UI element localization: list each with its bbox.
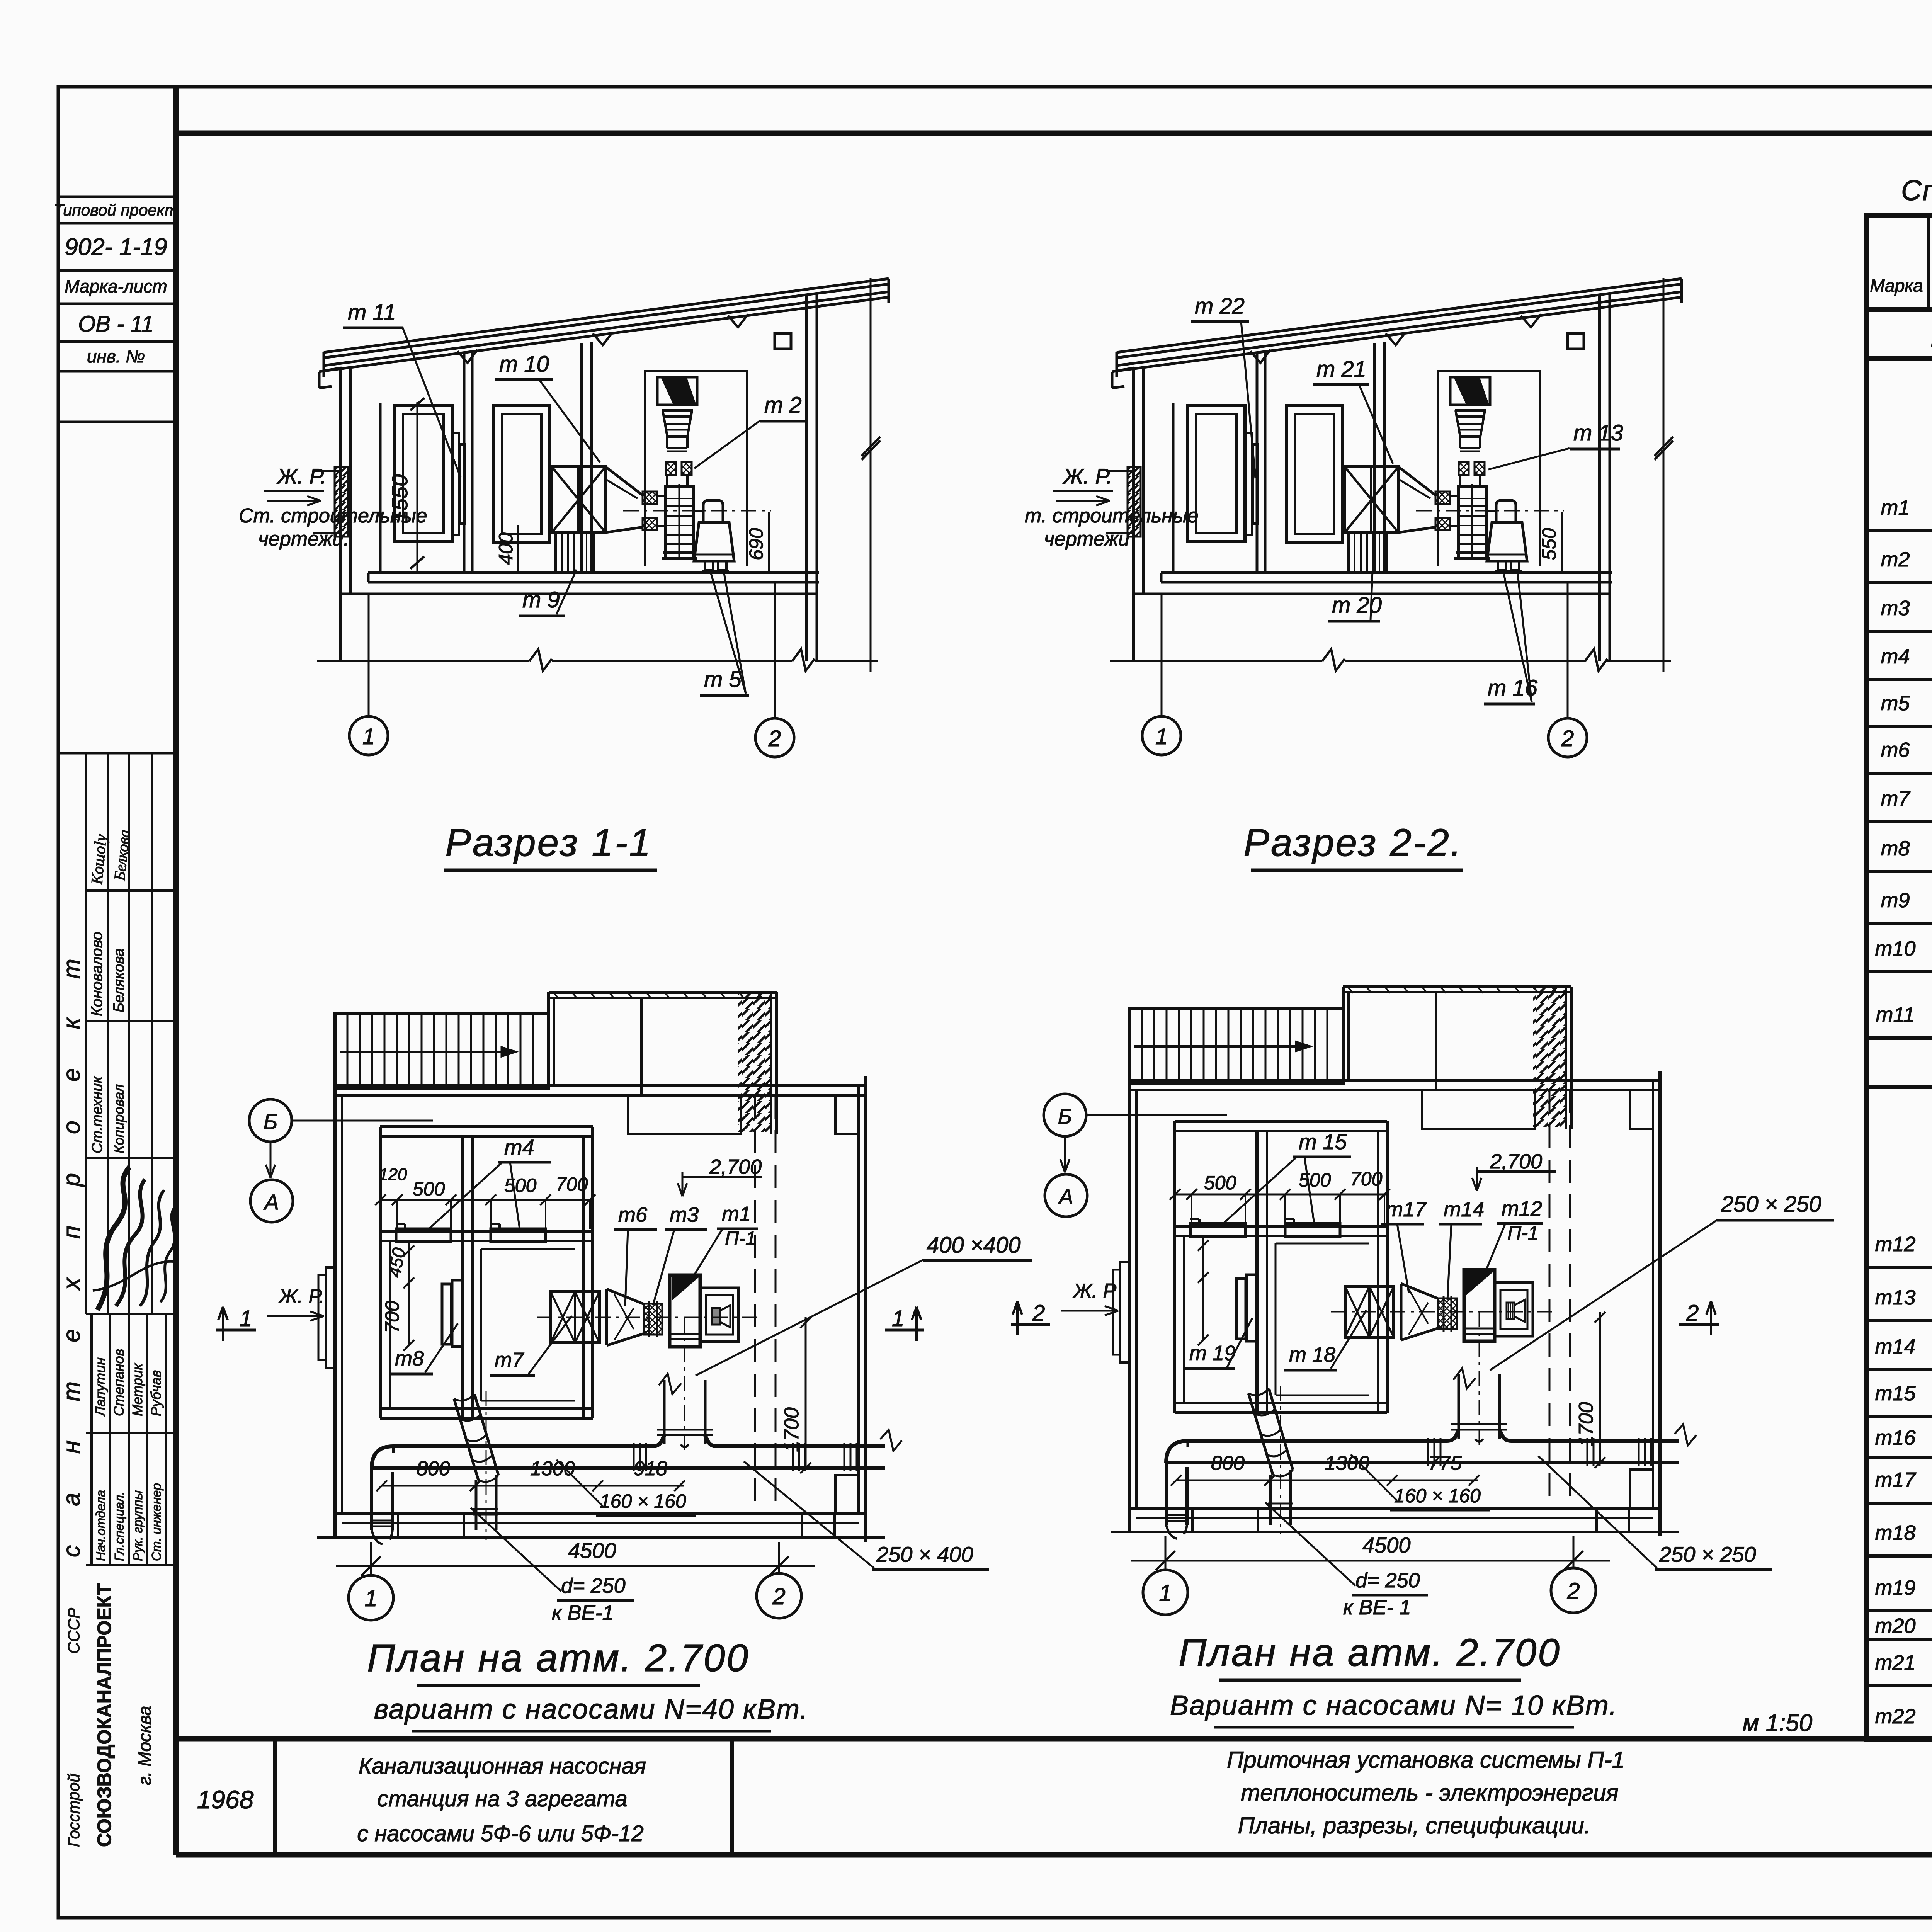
svg-text:m 11: m 11 xyxy=(348,300,396,325)
svg-text:690: 690 xyxy=(745,528,767,560)
table row m19 xyxy=(1866,1561,1932,1611)
title block xyxy=(176,1739,1932,1855)
table row m14 xyxy=(1866,1323,1932,1370)
svg-text:m 5: m 5 xyxy=(704,667,742,692)
svg-text:m5: m5 xyxy=(1881,692,1910,715)
svg-text:800: 800 xyxy=(1211,1452,1245,1475)
section view Razrez 2-2 xyxy=(1106,278,1682,757)
table row m12 xyxy=(1866,1089,1932,1267)
table row m18 xyxy=(1866,1505,1932,1556)
svg-text:инв. №: инв. № xyxy=(87,346,145,366)
svg-text:m22: m22 xyxy=(1875,1705,1915,1728)
svg-text:250 × 250: 250 × 250 xyxy=(1659,1542,1756,1566)
svg-text:Приточная установка системы: Приточная установка системы П-1 xyxy=(1227,1747,1625,1773)
svg-text:чертежи.: чертежи. xyxy=(258,528,349,550)
svg-text:m 20: m 20 xyxy=(1332,593,1382,618)
svg-text:Ж. Р.: Ж. Р. xyxy=(278,1285,325,1308)
dim 1550 xyxy=(417,402,418,571)
svg-text:m18: m18 xyxy=(1875,1521,1915,1544)
svg-text:П-1: П-1 xyxy=(1507,1222,1539,1244)
table row m13 xyxy=(1866,1272,1932,1321)
svg-text:m16: m16 xyxy=(1875,1426,1916,1449)
svg-text:Метрик: Метрик xyxy=(129,1363,145,1416)
svg-text:700: 700 xyxy=(1350,1168,1383,1190)
svg-text:План на атм. 2.700: План на атм. 2.700 xyxy=(1179,1631,1561,1674)
svg-text:к ВЕ- 1: к ВЕ- 1 xyxy=(1343,1596,1411,1619)
table row m4 xyxy=(1866,634,1932,680)
table row m17 xyxy=(1866,1459,1932,1503)
svg-text:120: 120 xyxy=(379,1165,407,1184)
plan 2 labels xyxy=(1011,1129,1834,1727)
svg-text:План на атм. 2.700: План на атм. 2.700 xyxy=(367,1636,750,1680)
svg-text:Копировал: Копировал xyxy=(111,1084,127,1153)
svg-text:Рубчав: Рубчав xyxy=(148,1370,164,1416)
svg-text:2,700: 2,700 xyxy=(709,1155,762,1179)
svg-text:m 19: m 19 xyxy=(1189,1342,1236,1365)
table row m1 xyxy=(1866,361,1932,531)
section 1 labels xyxy=(239,300,808,870)
svg-text:Белякова: Белякова xyxy=(111,948,127,1012)
svg-text:m6: m6 xyxy=(1881,738,1910,762)
svg-text:500: 500 xyxy=(413,1178,445,1200)
svg-text:m4: m4 xyxy=(504,1135,534,1159)
table row m2 xyxy=(1866,535,1932,583)
spec table header texts xyxy=(1870,225,1932,306)
svg-text:m8: m8 xyxy=(395,1347,424,1370)
svg-text:m 13: m 13 xyxy=(1573,420,1623,446)
svg-text:Марка-лист: Марка-лист xyxy=(65,276,167,296)
dim 690 xyxy=(768,512,770,571)
svg-text:m12: m12 xyxy=(1875,1233,1915,1256)
section mark left 2 xyxy=(1011,1323,1050,1326)
svg-text:Гл.специал.: Гл.специал. xyxy=(112,1492,126,1561)
svg-text:г. Москва: г. Москва xyxy=(134,1706,155,1785)
svg-text:1300: 1300 xyxy=(530,1458,575,1480)
svg-text:m 22: m 22 xyxy=(1195,294,1245,319)
svg-text:m13: m13 xyxy=(1875,1286,1915,1309)
svg-text:Ж. Р.: Ж. Р. xyxy=(1062,464,1112,488)
svg-text:т. строительные: т. строительные xyxy=(1025,505,1199,527)
svg-text:m14: m14 xyxy=(1875,1335,1915,1358)
svg-text:m14: m14 xyxy=(1444,1198,1484,1221)
svg-text:1700: 1700 xyxy=(1575,1402,1597,1447)
svg-text:m4: m4 xyxy=(1881,645,1910,668)
svg-text:Типовой проект: Типовой проект xyxy=(54,201,178,219)
svg-text:m11: m11 xyxy=(1876,1003,1915,1026)
svg-text:Разрез 2-2.: Разрез 2-2. xyxy=(1243,821,1463,864)
section mark left xyxy=(216,1329,256,1332)
plan 1 labels xyxy=(216,1135,1032,1731)
section mark right xyxy=(885,1329,924,1332)
svg-text:m 2: m 2 xyxy=(764,393,802,418)
svg-text:1: 1 xyxy=(240,1306,252,1331)
svg-text:СОЮЗВОДОКАНАЛПРОЕКТ: СОЮЗВОДОКАНАЛПРОЕКТ xyxy=(94,1583,115,1847)
svg-text:m19: m19 xyxy=(1875,1576,1915,1599)
svg-text:1: 1 xyxy=(892,1306,904,1331)
svg-text:500: 500 xyxy=(1204,1172,1236,1194)
svg-text:m7: m7 xyxy=(495,1349,524,1372)
svg-text:чертежи: чертежи xyxy=(1044,528,1129,550)
section view Razrez 1-1 xyxy=(313,278,889,757)
svg-text:Разрез 1-1: Разрез 1-1 xyxy=(445,821,652,864)
table row m9 xyxy=(1866,886,1932,923)
svg-text:775: 775 xyxy=(1428,1452,1462,1475)
svg-text:m17: m17 xyxy=(1386,1198,1427,1221)
svg-text:m 9: m 9 xyxy=(522,587,560,612)
svg-text:станция на 3 агрегата: станция на 3 агрегата xyxy=(377,1786,628,1811)
svg-text:m15: m15 xyxy=(1875,1382,1916,1405)
svg-text:m9: m9 xyxy=(1881,889,1910,912)
svg-text:m12: m12 xyxy=(1502,1197,1542,1220)
svg-text:m20: m20 xyxy=(1875,1614,1915,1638)
svg-text:m2: m2 xyxy=(1881,548,1910,571)
section 2 labels xyxy=(1025,294,1623,870)
svg-text:800: 800 xyxy=(417,1458,450,1480)
svg-text:m3: m3 xyxy=(670,1203,699,1226)
dim 550 xyxy=(1561,512,1563,571)
plan view variant 10kW xyxy=(1044,986,1696,1615)
svg-text:4500: 4500 xyxy=(568,1538,616,1563)
svg-text:2,700: 2,700 xyxy=(1490,1150,1542,1173)
svg-text:2: 2 xyxy=(1686,1301,1699,1326)
table row m5 xyxy=(1866,681,1932,726)
svg-text:250 × 250: 250 × 250 xyxy=(1721,1192,1821,1217)
svg-text:902- 1-19: 902- 1-19 xyxy=(65,234,167,260)
svg-text:2: 2 xyxy=(1032,1301,1045,1326)
svg-text:ОВ - 11: ОВ - 11 xyxy=(78,311,154,337)
table row m3 xyxy=(1866,585,1932,631)
svg-text:1700: 1700 xyxy=(781,1407,803,1452)
svg-text:Госстрой: Госстрой xyxy=(65,1774,83,1847)
section header variant 40kW xyxy=(1930,321,1932,354)
svg-text:1968: 1968 xyxy=(197,1785,254,1814)
svg-text:Коновалово: Коновалово xyxy=(88,932,105,1016)
svg-text:700: 700 xyxy=(381,1301,403,1333)
plan view variant 40kW xyxy=(249,992,902,1620)
svg-text:Ж. Р.: Ж. Р. xyxy=(276,464,327,488)
svg-text:m17: m17 xyxy=(1875,1468,1916,1492)
svg-text:Вариант с насосами N = 40: Вариант с насосами N = 40 кВт xyxy=(1930,321,1932,354)
svg-text:Спецификация марок на одну: Спецификация марок на одну установку. xyxy=(1901,174,1932,206)
svg-text:1300: 1300 xyxy=(1325,1452,1369,1475)
svg-text:918: 918 xyxy=(634,1458,667,1480)
svg-text:m8: m8 xyxy=(1881,837,1910,860)
svg-text:m1: m1 xyxy=(722,1202,751,1226)
svg-text:m7: m7 xyxy=(1881,787,1910,810)
section mark right 2 xyxy=(1679,1323,1719,1326)
svg-text:СССР: СССР xyxy=(65,1608,83,1654)
svg-text:Лапутин: Лапутин xyxy=(92,1357,108,1417)
svg-text:Рук. группы: Рук. группы xyxy=(131,1490,145,1561)
svg-text:m6: m6 xyxy=(618,1203,648,1226)
svg-text:m 21: m 21 xyxy=(1316,357,1366,382)
table row m15 xyxy=(1866,1371,1932,1417)
svg-text:m 15: m 15 xyxy=(1299,1129,1347,1154)
svg-text:с насосами 5Ф-6 или 5Ф-12: с насосами 5Ф-6 или 5Ф-12 xyxy=(357,1821,644,1846)
svg-text:m3: m3 xyxy=(1881,597,1910,620)
svg-text:m10: m10 xyxy=(1875,937,1915,960)
svg-text:160 × 160: 160 × 160 xyxy=(600,1490,686,1512)
spec table heading xyxy=(1901,174,1932,206)
svg-text:d= 250: d= 250 xyxy=(1355,1569,1420,1592)
svg-text:m1: m1 xyxy=(1881,496,1910,519)
spec table grid xyxy=(1866,215,1932,1740)
svg-text:Степанов: Степанов xyxy=(111,1349,127,1416)
table row m20 xyxy=(1866,1614,1932,1640)
svg-text:250 × 400: 250 × 400 xyxy=(876,1542,973,1566)
svg-text:Канализационная насосная: Канализационная насосная xyxy=(359,1753,646,1779)
svg-text:400 ×400: 400 ×400 xyxy=(927,1233,1021,1258)
scale note xyxy=(1743,1710,1812,1736)
table row m21 xyxy=(1866,1641,1932,1686)
svg-text:Вариант с насосами N= 10 кВт.: Вариант с насосами N= 10 кВт. xyxy=(1170,1690,1617,1721)
stamp names table xyxy=(58,753,176,1565)
table row m7 xyxy=(1866,774,1932,822)
svg-text:м 1:50: м 1:50 xyxy=(1743,1710,1812,1736)
svg-text:вариант с насосами N=40 кВт.: вариант с насосами N=40 кВт. xyxy=(374,1694,808,1725)
svg-text:Планы, разрезы, спецификации: Планы, разрезы, спецификации. xyxy=(1238,1813,1591,1838)
svg-text:m21: m21 xyxy=(1875,1651,1915,1674)
svg-text:4500: 4500 xyxy=(1362,1533,1411,1557)
svg-text:500: 500 xyxy=(504,1175,537,1196)
svg-text:400: 400 xyxy=(495,532,517,565)
svg-text:Ст. инженер: Ст. инженер xyxy=(149,1483,163,1561)
table row m8 xyxy=(1866,825,1932,872)
svg-text:теплоноситель - электроэнергия: теплоноситель - электроэнергия xyxy=(1241,1780,1618,1806)
svg-text:d= 250: d= 250 xyxy=(561,1574,626,1597)
svg-text:Ст. строительные: Ст. строительные xyxy=(239,505,427,527)
table row m22 xyxy=(1875,1690,1932,1738)
svg-text:m 18: m 18 xyxy=(1289,1343,1335,1366)
svg-text:m 10: m 10 xyxy=(499,352,549,377)
table row m16 xyxy=(1866,1416,1932,1458)
svg-text:160 × 160: 160 × 160 xyxy=(1394,1485,1481,1507)
svg-text:Нач.отдела: Нач.отдела xyxy=(94,1490,108,1561)
svg-text:Марка: Марка xyxy=(1870,276,1923,296)
svg-text:Ст.техник: Ст.техник xyxy=(89,1076,105,1153)
svg-text:к ВЕ-1: к ВЕ-1 xyxy=(552,1601,614,1624)
svg-text:500: 500 xyxy=(1299,1169,1331,1191)
svg-text:700: 700 xyxy=(556,1173,588,1195)
svg-text:с а н т е х п р о е к т: с а н т е х п р о е к т xyxy=(58,942,85,1557)
svg-text:Ж. Р: Ж. Р xyxy=(1072,1280,1117,1302)
dim 400 xyxy=(517,525,519,571)
svg-text:П-1: П-1 xyxy=(725,1228,756,1249)
table row m10 xyxy=(1866,926,1932,972)
stamp column fields xyxy=(54,197,178,422)
stamp org block xyxy=(65,1583,155,1847)
svg-text:550: 550 xyxy=(1538,528,1560,560)
table row m6 xyxy=(1866,728,1932,773)
table row m11 xyxy=(1866,981,1932,1038)
section header variant 10kW xyxy=(1866,1038,1932,1087)
